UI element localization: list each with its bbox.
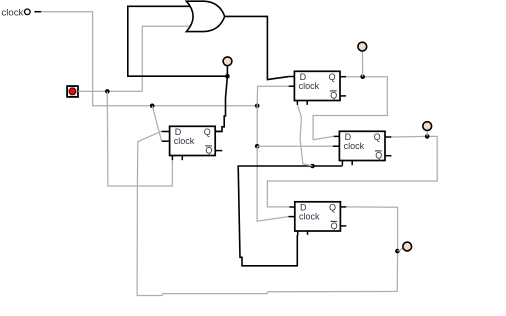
wire button net down to FF1 preset — [107, 91, 172, 186]
wire clock down and diagonal to FF4 clock pin — [257, 146, 288, 221]
wire clock branch down to FF3/FF4 row — [256, 106, 258, 146]
wire button net up to OR lower input — [142, 26, 189, 91]
LED C1 — [223, 57, 232, 66]
clock input CLK stub — [34, 11, 41, 13]
svg-text:Q: Q — [374, 132, 381, 142]
wire clock branch up to FF2 clock — [257, 86, 289, 106]
svg-text:Q: Q — [205, 145, 212, 155]
clock input CLK label — [2, 7, 24, 18]
node clock lower junction — [255, 144, 260, 149]
flip-flop FF3 — [333, 131, 392, 165]
svg-text:clock: clock — [299, 81, 320, 91]
wire FF3.Q net to C3 and FF4.D — [267, 136, 437, 207]
wire preset net (black) FF3/FF4 bottom — [238, 166, 342, 266]
node preset net junction — [310, 164, 315, 169]
node FF2.Q junction — [360, 74, 365, 79]
node clock main junction — [255, 104, 260, 109]
wire FF1.Q up to C1 junction — [215, 76, 227, 131]
svg-text:clock: clock — [174, 136, 195, 146]
svg-text:Q: Q — [329, 203, 336, 213]
wire stub up to LED C1 — [226, 66, 228, 76]
svg-text:Q: Q — [375, 150, 382, 160]
LED C3 — [423, 122, 432, 131]
wire preset branch up to FF2 bottom stub — [298, 105, 313, 166]
node FF3.Q junction — [425, 134, 430, 139]
wire clock net horizontal/vertical to distribution row — [41, 12, 257, 106]
wire clock diagonal to FF1 clock pin — [152, 106, 161, 141]
button S1 body — [67, 86, 78, 97]
clock input CLK pin circle — [25, 9, 31, 15]
flip-flop FF4 — [288, 202, 346, 236]
wire stub to LED C4 — [397, 248, 403, 251]
svg-text:Q: Q — [329, 72, 336, 82]
wire stub up to LED C2 — [361, 51, 363, 76]
button S1 red actuator — [69, 88, 76, 95]
or-gate G1 body — [186, 1, 224, 31]
flip-flop FF1 — [162, 126, 223, 160]
node button net junction — [105, 89, 110, 94]
wire OR output to FF2.D — [225, 16, 289, 79]
LED C4 — [403, 242, 412, 251]
LED C2 — [358, 42, 367, 51]
flip-flop FF2 — [289, 71, 346, 105]
wire FF1.D stub diagonal feed — [160, 130, 163, 132]
wire clock to FF3 clock pin — [257, 145, 333, 147]
wire FF2.Q net to C2 and FF3.D — [313, 77, 387, 140]
node C1 junction — [225, 74, 230, 79]
svg-text:clock: clock — [2, 7, 24, 18]
node FF4.Q/C4 junction — [395, 249, 400, 254]
wire stub up to LED C3 — [426, 131, 428, 137]
wire OR top input from FF1.Q/C1 net — [128, 6, 228, 76]
svg-text:Q: Q — [204, 127, 211, 137]
wire button output to OR gate corner — [78, 90, 143, 92]
svg-text:Q: Q — [331, 221, 338, 231]
svg-text:clock: clock — [344, 141, 365, 151]
wire FF4.Q net to C4 and FF1.D (bottom loop) — [137, 131, 398, 295]
svg-text:clock: clock — [299, 211, 320, 221]
svg-text:Q: Q — [330, 90, 337, 100]
node clock/FF1 junction — [150, 104, 155, 109]
